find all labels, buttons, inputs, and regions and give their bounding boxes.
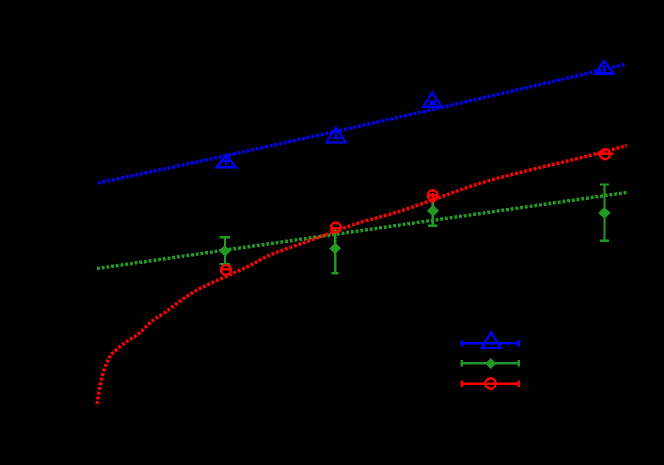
fit line blue (dotted) <box>98 64 626 183</box>
fit line green (dotted) <box>97 193 627 269</box>
errorbar O2 <box>330 227 341 229</box>
diamond D4 <box>598 207 611 219</box>
triangle T1 <box>216 155 235 167</box>
diamond D1 <box>219 245 231 257</box>
fit curve red (dotted) <box>97 146 627 405</box>
diamond D2 <box>329 243 341 255</box>
legend row 2: green sample line with caps and diamond <box>462 358 519 369</box>
errorbar D2 <box>332 229 339 274</box>
red series: error caps + open circles <box>221 149 614 275</box>
legend row 1: blue sample line with caps and triangle <box>462 332 519 348</box>
circle O3 <box>428 190 438 200</box>
green series: error bars + filled diamonds <box>220 184 609 273</box>
legend row 3: red sample line with caps and circle <box>462 378 519 388</box>
diamond D3 <box>427 205 439 217</box>
circle O2 <box>331 223 341 233</box>
errorbar T2 <box>333 131 340 139</box>
errorbar O1 <box>221 268 232 270</box>
errorbar O4 <box>596 152 613 154</box>
errorbar T4 <box>595 65 614 74</box>
errorbar D1 <box>220 237 231 264</box>
triangle T4 <box>595 61 613 73</box>
errorbar T1 <box>222 157 230 166</box>
blue series: open triangles + small error caps <box>216 61 613 167</box>
errorbar D3 <box>428 202 437 226</box>
circle O4 <box>600 149 610 159</box>
errorbar D4 <box>600 184 609 240</box>
errorbar T3 <box>430 101 436 105</box>
circle O1 <box>221 265 231 275</box>
triangle T2 <box>326 127 345 142</box>
errorbar O3 <box>428 193 437 202</box>
triangle T3 <box>423 92 441 107</box>
